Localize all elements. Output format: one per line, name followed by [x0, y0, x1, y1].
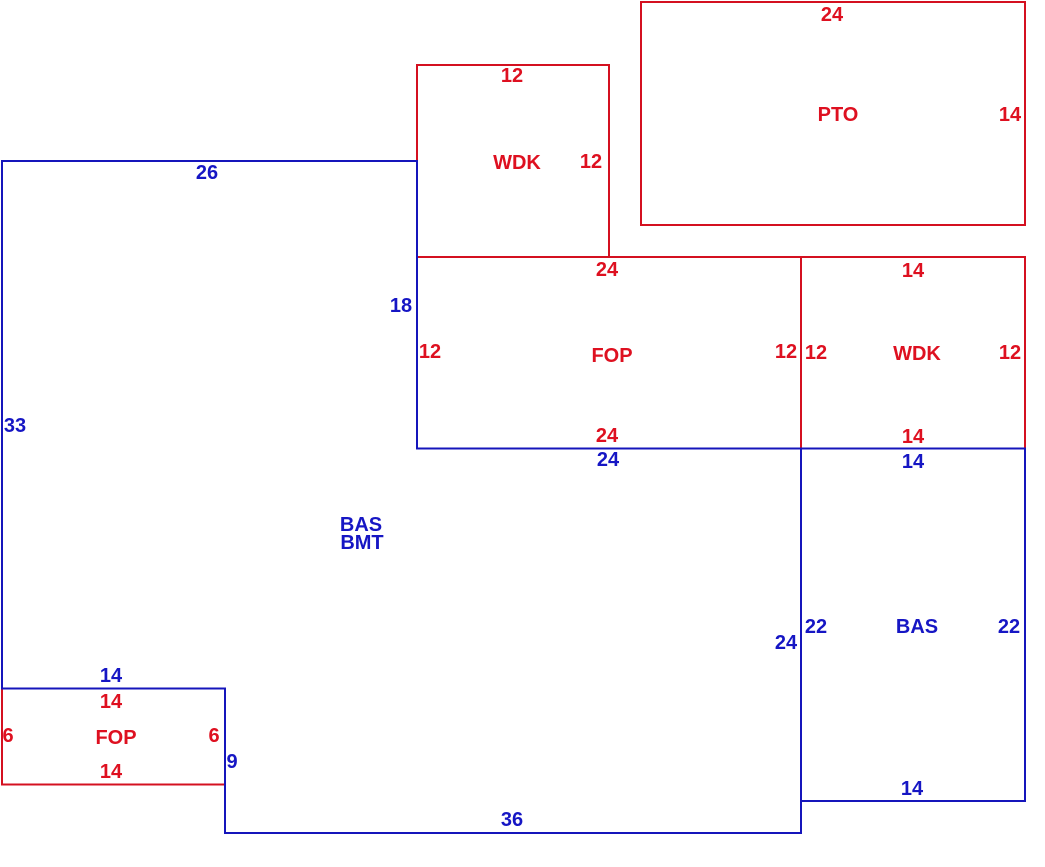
svg-text:24: 24 [596, 259, 619, 281]
svg-text:24: 24 [597, 449, 620, 471]
svg-text:12: 12 [775, 341, 797, 363]
svg-text:22: 22 [998, 616, 1020, 638]
svg-text:BAS: BAS [896, 616, 938, 638]
svg-text:14: 14 [901, 778, 924, 800]
svg-text:WDK: WDK [493, 152, 541, 174]
svg-text:14: 14 [999, 104, 1022, 126]
wood deck WDK (top) outline [417, 65, 609, 257]
svg-text:12: 12 [580, 151, 602, 173]
basement BAS (right) outline [801, 449, 1025, 802]
svg-text:FOP: FOP [95, 727, 136, 749]
svg-text:12: 12 [805, 342, 827, 364]
open porch FOP (middle) outline [417, 257, 801, 449]
svg-text:24: 24 [775, 632, 798, 654]
svg-text:PTO: PTO [818, 104, 859, 126]
svg-text:FOP: FOP [591, 345, 632, 367]
open porch FOP (bottom-left) outline [2, 689, 225, 785]
svg-text:14: 14 [902, 451, 925, 473]
wood deck WDK (right) outline [801, 257, 1025, 449]
svg-text:18: 18 [390, 295, 412, 317]
svg-text:14: 14 [100, 761, 123, 783]
svg-text:33: 33 [4, 415, 26, 437]
svg-text:WDK: WDK [893, 343, 941, 365]
svg-text:14: 14 [100, 691, 123, 713]
main dwelling BAS/BMT outline [2, 161, 801, 833]
svg-text:12: 12 [419, 341, 441, 363]
svg-text:24: 24 [596, 425, 619, 447]
svg-text:6: 6 [208, 725, 219, 747]
svg-text:22: 22 [805, 616, 827, 638]
svg-text:BMT: BMT [340, 532, 383, 554]
svg-text:14: 14 [902, 260, 925, 282]
svg-text:26: 26 [196, 162, 218, 184]
patio PTO outline [641, 2, 1025, 225]
svg-text:14: 14 [902, 426, 925, 448]
svg-text:14: 14 [100, 665, 123, 687]
svg-text:12: 12 [999, 342, 1021, 364]
svg-text:9: 9 [226, 751, 237, 773]
svg-text:36: 36 [501, 809, 523, 831]
svg-text:6: 6 [2, 725, 13, 747]
svg-text:24: 24 [821, 4, 844, 26]
svg-text:12: 12 [501, 65, 523, 87]
